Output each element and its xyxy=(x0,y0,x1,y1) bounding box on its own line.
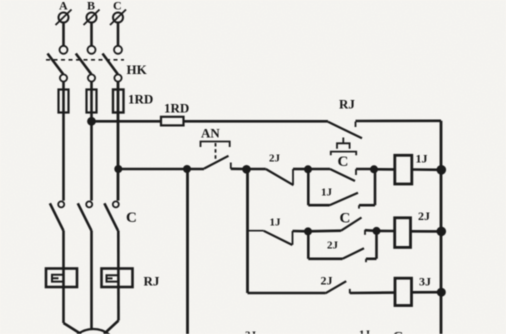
svg-text:1J: 1J xyxy=(270,216,282,228)
svg-text:2J: 2J xyxy=(327,240,339,252)
svg-text:B: B xyxy=(87,0,95,13)
svg-text:RJ: RJ xyxy=(339,97,355,112)
svg-text:C: C xyxy=(126,210,137,226)
svg-text:AN: AN xyxy=(201,126,220,141)
svg-text:C: C xyxy=(340,211,351,227)
svg-text:1RD: 1RD xyxy=(128,92,153,107)
svg-text:C: C xyxy=(393,330,404,334)
svg-text:A: A xyxy=(59,0,68,13)
svg-text:1J: 1J xyxy=(321,187,333,199)
svg-text:RJ: RJ xyxy=(144,274,160,289)
svg-text:3J: 3J xyxy=(419,274,431,288)
svg-text:C: C xyxy=(338,154,349,170)
svg-text:1RD: 1RD xyxy=(164,101,189,116)
svg-text:2J: 2J xyxy=(321,274,333,288)
svg-text:1J: 1J xyxy=(359,329,371,334)
svg-text:2J: 2J xyxy=(269,153,281,165)
svg-text:HK: HK xyxy=(127,62,148,77)
svg-text:1J: 1J xyxy=(416,152,428,166)
svg-text:C: C xyxy=(113,0,122,13)
svg-text:3J: 3J xyxy=(245,330,257,334)
svg-text:2J: 2J xyxy=(418,209,430,223)
